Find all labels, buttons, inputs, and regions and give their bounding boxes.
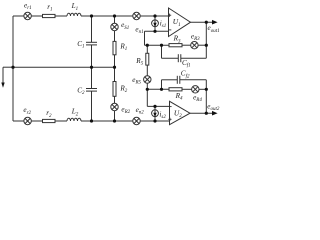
op-amp U1 [169, 8, 191, 37]
current source i_s1 [152, 16, 159, 31]
svg-text:eR3: eR3 [191, 32, 200, 42]
node is2 bottom [153, 119, 156, 122]
current source i_s2 [152, 106, 159, 121]
svg-text:C1: C1 [77, 40, 84, 50]
wire S branch top [114, 16, 116, 23]
svg-text:eR4: eR4 [193, 94, 202, 104]
svg-text:r1: r1 [47, 3, 52, 13]
node R5 bottom [146, 88, 149, 91]
svg-text:R4: R4 [175, 92, 183, 102]
wire R3 row left [145, 44, 170, 46]
source e_S1 [111, 23, 118, 30]
wire left rail [12, 16, 14, 121]
capacitor C2 [86, 89, 97, 92]
svg-text:R1: R1 [119, 43, 127, 53]
wire U2 minus input row [147, 105, 169, 107]
wire R4 row left [147, 88, 169, 90]
svg-text:R3: R3 [173, 35, 181, 45]
wire top row segment 1 [13, 15, 24, 17]
wire R5 branch [146, 45, 148, 53]
wire [31, 120, 42, 122]
op-amp U2 [170, 101, 191, 124]
wire U2 output [190, 112, 213, 114]
wire [55, 120, 67, 122]
wire to U1 + input [140, 15, 168, 17]
svg-text:eout1: eout1 [208, 24, 220, 34]
wire C branch lower [91, 91, 93, 121]
resistor R2 [113, 82, 116, 97]
svg-text:eR2: eR2 [121, 105, 130, 115]
svg-text:eS1: eS1 [121, 21, 129, 31]
svg-text:is2: is2 [159, 110, 166, 120]
wire Cf2 branch up [161, 80, 163, 90]
node Cf2 branch [160, 88, 163, 91]
wire [31, 15, 42, 17]
node is1 bottom [153, 30, 156, 33]
wire [114, 31, 116, 42]
wire [198, 44, 206, 46]
resistor R5 [146, 53, 149, 65]
wire Cf1 row left [162, 57, 179, 59]
source e_R5 [144, 76, 151, 83]
wire C branch middle [91, 45, 93, 89]
wire [199, 88, 206, 90]
resistor R1 [113, 41, 116, 54]
source e_r1 [24, 12, 31, 19]
node out1 [205, 21, 208, 24]
svg-text:C2: C2 [77, 86, 85, 96]
arrow e_out2 [212, 111, 218, 116]
node middle R [113, 66, 116, 69]
svg-text:Cf1: Cf1 [182, 59, 191, 69]
label plus U1 [168, 14, 171, 17]
inductor L1 [67, 13, 81, 16]
svg-text:Cf2: Cf2 [181, 70, 190, 80]
svg-text:er2: er2 [23, 106, 31, 116]
node bottom R branch [113, 119, 116, 122]
svg-text:er1: er1 [24, 2, 32, 12]
wire U2 right rail [205, 80, 207, 113]
svg-text:U2: U2 [174, 108, 182, 119]
wire bottom row segment 1 [13, 120, 24, 122]
wire Cf1 branch down [161, 45, 163, 58]
svg-text:is1: is1 [160, 19, 166, 29]
node middle C [90, 66, 93, 69]
svg-text:eout2: eout2 [207, 103, 220, 113]
label minus U2 [169, 106, 171, 108]
wire C branch upper [91, 16, 93, 42]
wire middle row [13, 66, 115, 68]
node is1 top [153, 14, 156, 17]
ground stub [1, 67, 13, 88]
wire Cf2 row right [180, 79, 207, 81]
wire [146, 65, 148, 76]
wire corner down to feedback [144, 31, 146, 45]
wire U1 minus input row [145, 30, 169, 32]
wire [114, 96, 116, 103]
wire U1 output [191, 21, 213, 23]
wire to U2 + input [140, 120, 169, 122]
capacitor Cf1 [178, 54, 181, 62]
node R5 top [146, 44, 149, 47]
wire bottom row segment 2 [81, 120, 133, 122]
wire [55, 15, 67, 17]
source e_R2 [111, 103, 118, 110]
wire Cf2 row left [162, 79, 178, 81]
node middle left [11, 66, 14, 69]
wire top row segment 2 [81, 15, 133, 17]
svg-text:L2: L2 [71, 108, 79, 118]
source e_n2 [133, 117, 140, 124]
resistor R4 [169, 88, 182, 91]
inductor L2 [67, 118, 81, 121]
wire corner to U2 minus input [146, 89, 148, 106]
wire Cf1 row right [181, 57, 207, 59]
svg-text:U1: U1 [173, 17, 181, 28]
node top C branch [90, 14, 93, 17]
svg-text:en1: en1 [135, 26, 143, 36]
wire [114, 55, 116, 82]
capacitor C1 [86, 42, 97, 45]
source e_n1 [133, 12, 140, 19]
node top S branch [113, 14, 116, 17]
node Cf1 branch [160, 44, 163, 47]
source e_r2 [24, 117, 31, 124]
source e_R4 [192, 86, 199, 93]
capacitor Cf2 [177, 76, 180, 84]
svg-text:R5: R5 [135, 57, 143, 67]
svg-text:r2: r2 [46, 109, 52, 119]
node is2 top [153, 105, 156, 108]
resistor r2 [43, 119, 56, 122]
svg-text:L1: L1 [71, 2, 79, 12]
node out2 [205, 112, 208, 115]
wire [182, 44, 191, 46]
label plus U2 [168, 118, 171, 121]
source e_R3 [191, 42, 198, 49]
arrow e_out1 [212, 20, 218, 25]
resistor r1 [43, 14, 56, 17]
wire [146, 83, 148, 89]
svg-text:eR5: eR5 [132, 76, 141, 86]
wire [182, 88, 192, 90]
node rail R4 [205, 88, 208, 91]
resistor R3 [169, 44, 182, 47]
node rail R3 [205, 44, 208, 47]
svg-text:en2: en2 [136, 106, 145, 116]
label minus U1 [169, 29, 172, 31]
wire U1 right rail [205, 22, 207, 58]
wire [114, 111, 116, 121]
node bottom C branch [90, 119, 93, 122]
svg-text:R2: R2 [119, 85, 127, 95]
